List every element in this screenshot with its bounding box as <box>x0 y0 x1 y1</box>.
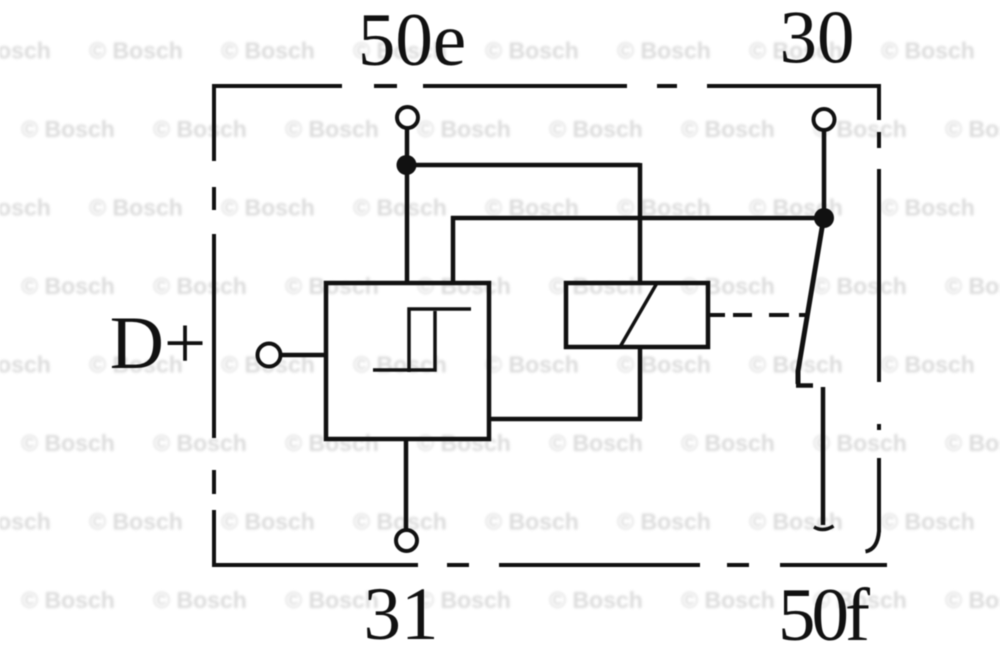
svg-text:© Bosch: © Bosch <box>353 352 447 378</box>
relay housing dashed outline: top side <box>213 84 881 88</box>
svg-text:© Bosch: © Bosch <box>417 430 511 456</box>
relay housing dashed outline: left side <box>212 84 216 567</box>
svg-text:© Bosch: © Bosch <box>285 273 379 299</box>
svg-text:© Bosch: © Bosch <box>881 195 975 221</box>
svg-text:© Bosch: © Bosch <box>417 116 511 142</box>
svg-text:© Bosch: © Bosch <box>0 352 51 378</box>
svg-text:© Bosch: © Bosch <box>681 430 775 456</box>
svg-text:© Bosch: © Bosch <box>153 430 247 456</box>
svg-text:50f: 50f <box>778 574 870 650</box>
terminal circle 50e <box>397 107 418 128</box>
svg-text:© Bosch: © Bosch <box>813 430 907 456</box>
svg-text:© Bosch: © Bosch <box>549 116 643 142</box>
svg-text:© Bosch: © Bosch <box>881 509 975 535</box>
relay coil box <box>566 283 708 347</box>
svg-text:© Bosch: © Bosch <box>549 430 643 456</box>
svg-text:© Bosch: © Bosch <box>0 38 51 64</box>
terminal circle 30 <box>814 109 835 130</box>
wire: terminal 30 down to junction <box>822 129 827 218</box>
wire: junction to relay coil, horizontal run <box>404 163 640 168</box>
wire: terminal D+ to control unit <box>280 353 328 358</box>
svg-text:© Bosch: © Bosch <box>89 195 183 221</box>
svg-text:© Bosch: © Bosch <box>485 352 579 378</box>
svg-text:50e: 50e <box>358 0 466 82</box>
svg-text:© Bosch: © Bosch <box>549 273 643 299</box>
svg-text:© Bosch: © Bosch <box>221 195 315 221</box>
svg-text:© Bosch: © Bosch <box>89 509 183 535</box>
relay housing outline: bottom-right hook <box>866 531 880 552</box>
svg-text:© Bosch: © Bosch <box>221 509 315 535</box>
svg-text:© Bosch: © Bosch <box>681 273 775 299</box>
svg-text:© Bosch: © Bosch <box>945 273 1000 299</box>
svg-text:© Bosch: © Bosch <box>749 509 843 535</box>
mechanical link between relay coil and armature (dashed) <box>710 313 808 317</box>
svg-text:© Bosch: © Bosch <box>681 587 775 613</box>
relay coil diagonal stroke <box>620 283 657 347</box>
wire: terminal 50e down to control unit <box>405 128 410 285</box>
junction node at 50e branch <box>397 155 417 175</box>
svg-text:© Bosch: © Bosch <box>21 587 115 613</box>
wire: fixed contact to terminal 50f <box>821 387 826 525</box>
svg-text:© Bosch: © Bosch <box>353 195 447 221</box>
svg-text:31: 31 <box>364 573 439 650</box>
svg-text:© Bosch: © Bosch <box>0 509 51 535</box>
control unit box <box>326 283 489 439</box>
wire: relay coil bottom, vertical run <box>638 345 643 419</box>
relay housing dashed outline: right side <box>877 84 881 532</box>
svg-text:© Bosch: © Bosch <box>549 587 643 613</box>
svg-text:© Bosch: © Bosch <box>21 116 115 142</box>
svg-text:© Bosch: © Bosch <box>945 430 1000 456</box>
svg-text:D+: D+ <box>110 302 206 385</box>
svg-text:© Bosch: © Bosch <box>89 38 183 64</box>
svg-text:© Bosch: © Bosch <box>153 273 247 299</box>
wire: control unit output to switch common, vertical stub <box>451 216 456 285</box>
relay housing dashed outline: bottom side <box>212 563 887 567</box>
svg-text:30: 30 <box>780 0 855 80</box>
wire: relay coil return to control unit <box>487 417 642 422</box>
svg-text:© Bosch: © Bosch <box>417 273 511 299</box>
wire: control unit output to switch common, horizontal run <box>451 216 824 221</box>
svg-text:© Bosch: © Bosch <box>153 587 247 613</box>
terminal circle D+ <box>258 344 281 367</box>
junction node at switch common <box>814 208 834 228</box>
svg-text:© Bosch: © Bosch <box>617 352 711 378</box>
svg-text:© Bosch: © Bosch <box>617 509 711 535</box>
svg-text:© Bosch: © Bosch <box>221 38 315 64</box>
svg-text:© Bosch: © Bosch <box>617 38 711 64</box>
svg-text:© Bosch: © Bosch <box>0 195 51 221</box>
svg-text:© Bosch: © Bosch <box>945 116 1000 142</box>
wire: control unit down to terminal 31 <box>404 437 409 532</box>
svg-text:© Bosch: © Bosch <box>813 273 907 299</box>
wire: relay coil top feed, vertical run <box>638 163 643 285</box>
fixed contact foot <box>814 526 834 530</box>
svg-text:© Bosch: © Bosch <box>681 116 775 142</box>
svg-text:© Bosch: © Bosch <box>21 430 115 456</box>
svg-text:© Bosch: © Bosch <box>485 38 579 64</box>
svg-text:© Bosch: © Bosch <box>21 273 115 299</box>
hysteresis symbol inside control unit <box>373 309 471 372</box>
svg-text:© Bosch: © Bosch <box>881 352 975 378</box>
svg-text:© Bosch: © Bosch <box>285 430 379 456</box>
svg-text:© Bosch: © Bosch <box>945 587 1000 613</box>
svg-text:© Bosch: © Bosch <box>881 38 975 64</box>
switch armature from terminal 30 junction <box>796 222 823 386</box>
svg-text:© Bosch: © Bosch <box>153 116 247 142</box>
svg-text:© Bosch: © Bosch <box>485 509 579 535</box>
svg-text:© Bosch: © Bosch <box>285 116 379 142</box>
terminal circle 31 <box>396 530 417 551</box>
